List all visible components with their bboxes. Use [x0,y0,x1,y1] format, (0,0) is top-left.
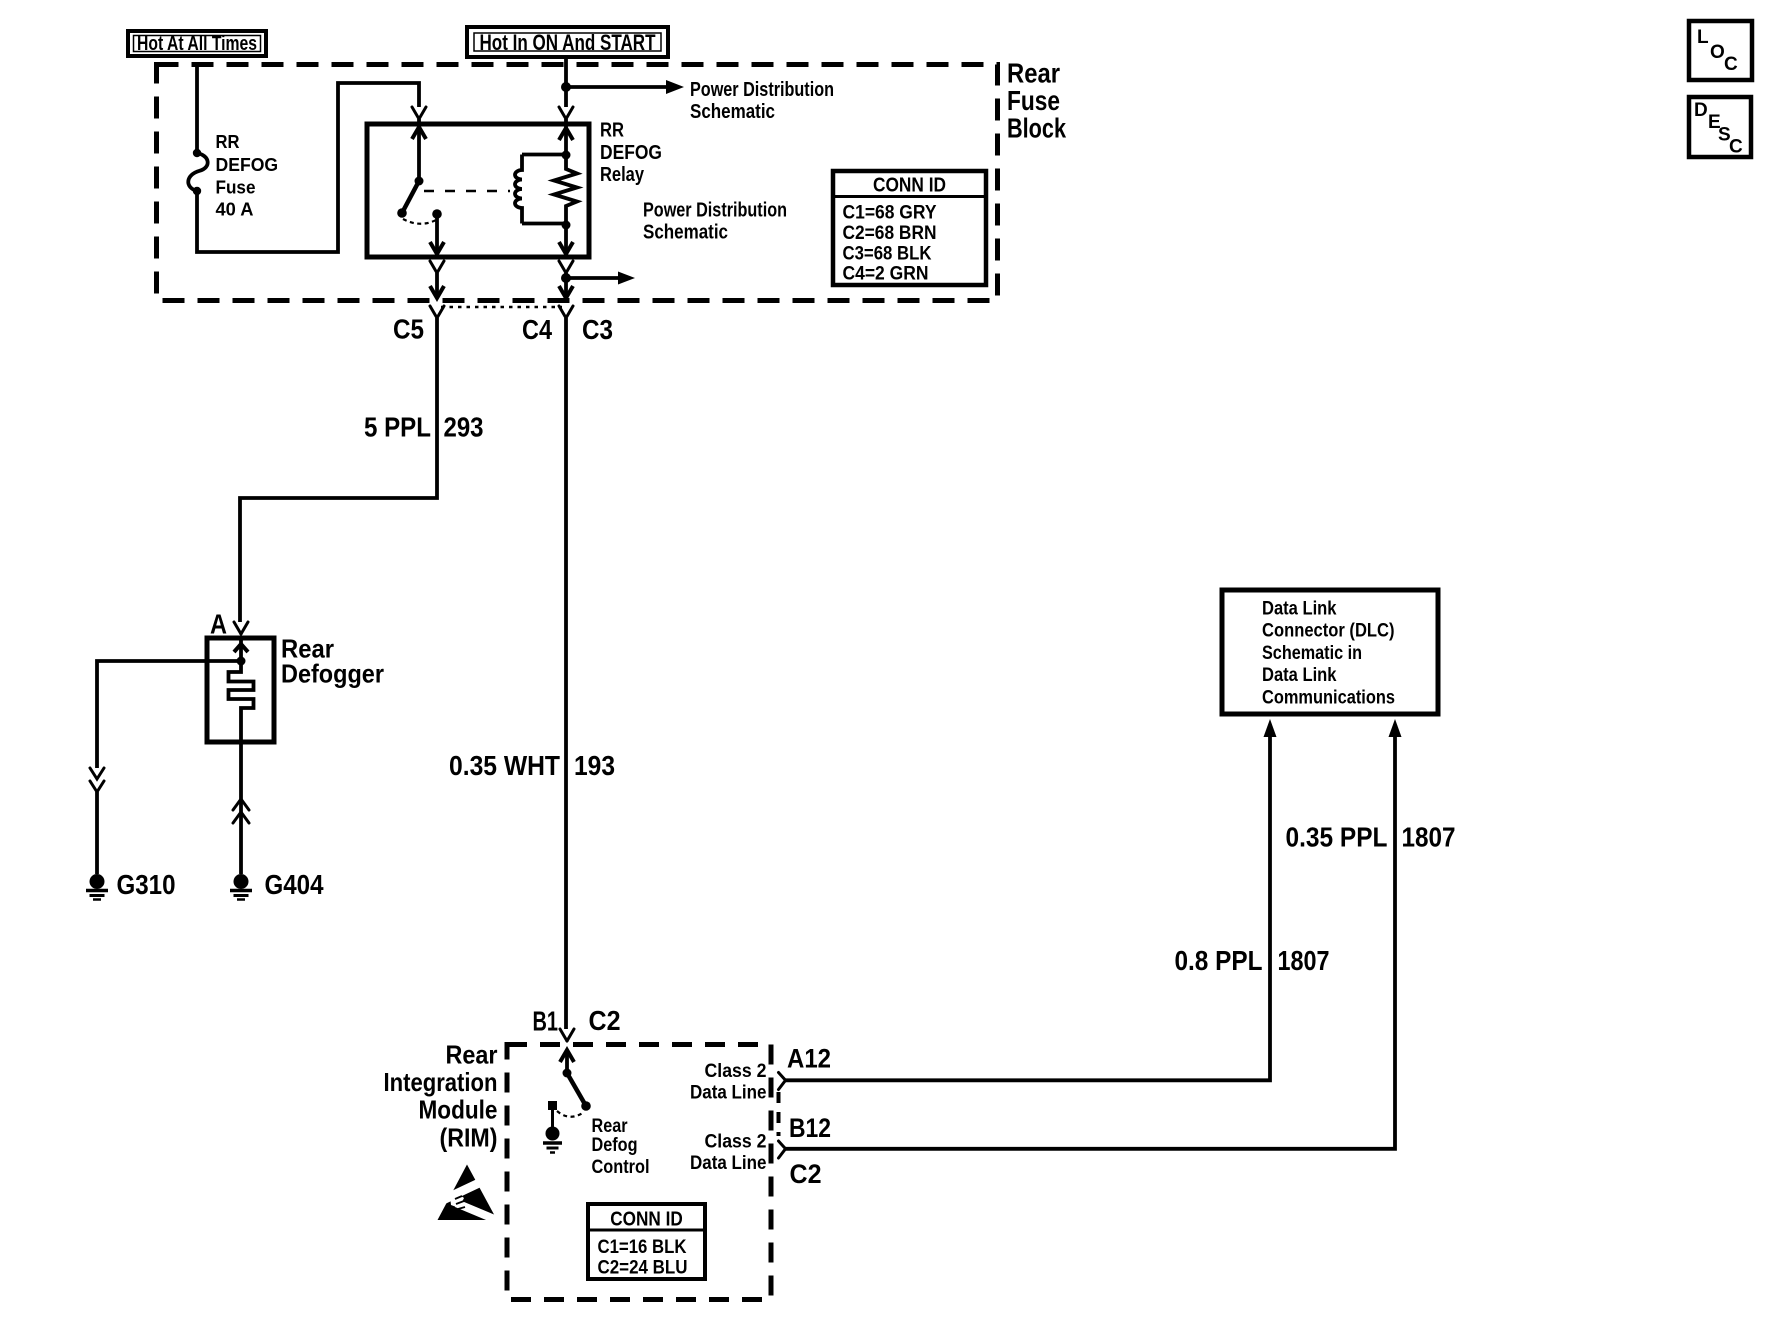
svg-text:Data Link: Data Link [1262,665,1337,686]
label: Power Distribution Schematic (middle) [643,200,787,244]
wire label: 0.8 PPL 1807 [1175,945,1330,976]
svg-text:Rear: Rear [1007,58,1060,89]
wire label: 5 PPL 293 [364,412,484,443]
CONN ID table (Rear Fuse Block) [833,171,986,285]
defogger input arrow and element [229,640,254,742]
svg-text:O: O [1710,42,1725,63]
svg-text:Fuse: Fuse [1007,85,1060,116]
svg-text:A12: A12 [787,1044,831,1074]
svg-text:G310: G310 [117,869,176,900]
svg-text:193: 193 [574,750,615,781]
svg-text:C2: C2 [790,1159,822,1189]
svg-text:Data Link: Data Link [1262,598,1337,619]
ESD sensitive symbol [438,1165,501,1226]
svg-text:Module: Module [419,1095,498,1125]
svg-text:CONN ID: CONN ID [610,1209,683,1231]
svg-text:0.35 WHT: 0.35 WHT [449,750,560,781]
RIM dashed border [507,1045,771,1300]
ground G310 [86,869,176,900]
RIM internal switch (Rear Defog Control) [560,1050,591,1111]
label: Rear Defogger [281,634,384,689]
DESC icon box [1689,97,1751,158]
svg-text:0.35 PPL: 0.35 PPL [1286,822,1388,853]
svg-text:Fuse: Fuse [216,178,256,198]
svg-text:C3=68 BLK: C3=68 BLK [843,244,932,265]
value label: RR DEFOG Fuse 40 A [216,132,279,220]
connector Y: fuse block C5 in (below border) [430,306,444,318]
wire: 0.35 WHT 193 from C3 to RIM [564,318,568,1029]
connector Y: RIM pin B12 [779,1141,786,1158]
svg-text:1807: 1807 [1278,945,1330,976]
svg-text:Schematic: Schematic [643,222,728,244]
svg-text:C1=68 GRY: C1=68 GRY [843,203,937,224]
svg-text:1807: 1807 [1402,822,1456,853]
wire label: 0.35 PPL 1807 [1286,822,1456,853]
svg-text:RR: RR [216,132,240,152]
svg-text:DEFOG: DEFOG [600,142,662,164]
wire: 0.35 PPL 1807 (B12 to DLC) [785,719,1402,1149]
pin label A [210,609,227,640]
label: Power Distribution Schematic (top) [690,79,834,123]
connector label C2 (top) [589,1005,621,1036]
svg-text:C4: C4 [522,314,552,345]
svg-text:Class 2: Class 2 [705,1061,767,1082]
wire label: 0.35 WHT 193 [449,750,615,781]
label: Class 2 Data Line (B12) [690,1131,767,1174]
connector Y: RIM pin B1 of C2 [560,1029,574,1041]
DLC reference box [1222,590,1438,714]
svg-text:L: L [1697,27,1709,48]
label box: Hot At All Times [128,31,266,56]
dashed connector segment between A12 and B12 [777,1092,781,1136]
RIM driver post with internal ground [543,1101,584,1153]
svg-text:Defogger: Defogger [281,659,384,689]
svg-text:Defog: Defog [592,1135,638,1156]
pin label A12 [787,1044,831,1074]
connector Y: relay switch pin (top left) [412,107,426,126]
connector Y: fuse block C5 out (above border) [430,261,444,298]
wire: fuse to relay switch feed [197,83,419,252]
label box: Hot In ON And START [467,27,668,57]
svg-text:Data Line: Data Line [690,1083,767,1104]
wire: coil feed from Hot In ON And START [561,58,684,107]
svg-text:Power Distribution: Power Distribution [643,200,787,222]
svg-text:293: 293 [444,412,484,443]
label: Class 2 Data Line (A12) [690,1061,767,1104]
svg-text:Rear: Rear [446,1040,498,1070]
svg-text:Hot In ON And START: Hot In ON And START [480,30,656,55]
svg-text:DEFOG: DEFOG [216,155,279,175]
connector Y: C3 in (below border) [559,306,573,318]
svg-text:Power Distribution: Power Distribution [690,79,834,101]
fuse: RR DEFOG Fuse 40 A [188,149,207,195]
relay box: RR DEFOG Relay [367,124,589,257]
svg-text:Schematic: Schematic [690,101,775,123]
connector Y: RIM pin A12 [779,1073,786,1090]
pin label C3 [582,314,613,345]
wire: relay coil output down [559,225,573,254]
relay resistor [554,155,577,230]
connector label C2 (bottom) [790,1159,822,1189]
label: Rear Defog Control [592,1116,650,1178]
svg-text:CONN ID: CONN ID [873,175,946,197]
svg-text:RR: RR [600,120,624,142]
svg-text:0.8 PPL: 0.8 PPL [1175,945,1263,976]
relay coil [515,155,566,224]
relay switch arm [397,126,444,254]
svg-text:Integration: Integration [384,1067,498,1097]
wire: 5 PPL 293 from C5 to Rear Defogger [240,318,437,622]
svg-text:B12: B12 [789,1113,831,1143]
LOC icon box [1689,21,1752,80]
connector Y: fuse block C4 out (above border) [559,261,635,298]
ground G404 [230,869,324,900]
dashed mechanical link relay [424,190,510,193]
connector Y: defogger pin A [234,622,248,634]
pin label B12 [789,1113,831,1143]
pin label B1 [533,1006,559,1037]
svg-text:B1: B1 [533,1006,559,1037]
svg-text:C5: C5 [393,314,424,345]
svg-text:D: D [1694,100,1708,121]
svg-text:C: C [1729,137,1743,158]
svg-text:40 A: 40 A [216,200,254,220]
connector Y: relay coil pin (top right) [559,107,573,126]
svg-text:G404: G404 [265,869,324,900]
svg-text:5 PPL: 5 PPL [364,412,431,443]
svg-text:C: C [1724,54,1738,75]
svg-text:Data Line: Data Line [690,1153,767,1174]
svg-text:C2=24 BLU: C2=24 BLU [598,1258,688,1279]
wire: defogger bottom to G404 [233,742,249,874]
svg-text:Class 2: Class 2 [705,1131,767,1152]
pin label C5 [393,314,424,345]
svg-text:Hot At All Times: Hot At All Times [137,33,257,55]
wire: defogger ground side left to G310 [90,661,241,874]
wire: hot feed down from Hot At All Times [195,65,199,154]
svg-text:Communications: Communications [1262,688,1395,709]
label: Rear Fuse Block [1007,58,1066,144]
svg-text:Control: Control [592,1157,650,1178]
Rear Fuse Block dashed border [157,65,998,301]
svg-text:Block: Block [1007,113,1066,144]
CONN ID table (RIM) [588,1204,705,1279]
svg-text:C4=2 GRN: C4=2 GRN [843,264,929,285]
label: Rear Integration Module (RIM) [384,1040,498,1153]
label: RR DEFOG Relay [600,120,662,186]
svg-text:Connector (DLC): Connector (DLC) [1262,621,1395,642]
wire: 0.8 PPL 1807 (A12 to DLC) [785,719,1277,1080]
svg-text:Relay: Relay [600,164,645,186]
svg-text:(RIM): (RIM) [440,1122,498,1152]
svg-text:Schematic in: Schematic in [1262,643,1362,664]
relay coil branch arrow [559,126,573,160]
svg-text:C2=68 BRN: C2=68 BRN [843,223,937,244]
svg-text:A: A [210,609,227,640]
pin label C4 [522,314,552,345]
rear defogger box [207,638,274,742]
svg-text:C2: C2 [589,1005,621,1036]
svg-text:C1=16 BLK: C1=16 BLK [598,1237,687,1258]
dotted in-line connector link [441,306,562,309]
svg-text:C3: C3 [582,314,613,345]
